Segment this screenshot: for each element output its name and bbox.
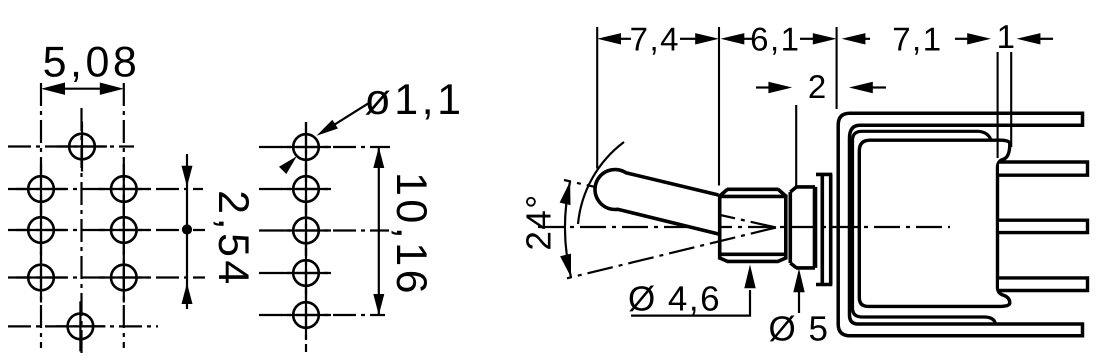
vertical centerline: [305, 122, 307, 352]
dimension 2,54: [182, 154, 258, 309]
angle arc 24deg: [560, 181, 571, 277]
row3 centerline: [259, 229, 389, 231]
row4 centerline: [8, 276, 205, 278]
row2 centerline: [259, 188, 332, 190]
dim 1: [997, 18, 1053, 55]
svg-text:10,16: 10,16: [387, 172, 435, 297]
lever swing arc: [578, 142, 624, 224]
hole top center: [57, 122, 107, 172]
svg-text:Ø 4,6: Ø 4,6: [628, 280, 721, 319]
hole row2 left: [16, 164, 66, 214]
toggle lever (bat): [595, 169, 719, 234]
column centerline right: [123, 83, 125, 348]
horizontal centerline: [538, 226, 950, 228]
svg-text:5,08: 5,08: [43, 39, 141, 87]
extension line 2 (thread start): [718, 27, 720, 186]
collar dia 5: [790, 187, 815, 268]
svg-text:6,1: 6,1: [750, 21, 800, 58]
label dia 4,6 with leader: [628, 265, 756, 319]
housing (plastic body): [859, 140, 1010, 306]
hole row2 right: [99, 164, 149, 214]
hole m3: [281, 206, 331, 256]
svg-text:24°: 24°: [520, 193, 559, 250]
center vertical centerline: [80, 108, 82, 355]
hole m1: [281, 122, 331, 172]
row1 centerline: [8, 145, 134, 147]
svg-text:1: 1: [997, 18, 1017, 55]
lower angled centerline: [567, 228, 776, 279]
dim 2: [756, 68, 886, 186]
extension line 5: [1010, 52, 1012, 147]
svg-text:2,54: 2,54: [209, 190, 257, 288]
upper angled centerline (lever axis): [564, 180, 776, 228]
hole bottom center: [55, 301, 105, 351]
inner lip line: [853, 131, 986, 317]
hole m5: [281, 290, 331, 340]
hole row3 left: [16, 205, 66, 255]
hole row4 left: [16, 253, 66, 303]
svg-text:7,4: 7,4: [630, 21, 680, 58]
dimension 10,16: [373, 147, 435, 315]
svg-text:2: 2: [808, 68, 828, 105]
pin top: [999, 162, 1088, 175]
body bracket (outer metal frame with top/bottom bars): [838, 113, 1082, 335]
label ø1,1 with leader: [279, 76, 465, 174]
dimension 5,08: [41, 39, 140, 95]
svg-text:Ø 5: Ø 5: [769, 310, 830, 349]
row1 centerline: [259, 146, 390, 148]
hole m2: [281, 164, 331, 214]
label dia 5 with leader: [769, 269, 830, 349]
front flange: [816, 174, 832, 284]
extension line 4: [997, 52, 999, 158]
hole row3 right: [99, 205, 149, 255]
pin bottom: [999, 278, 1088, 291]
column centerline left: [40, 83, 42, 348]
row5 centerline: [8, 325, 158, 327]
svg-text:7,1: 7,1: [892, 21, 942, 58]
threaded bushing: [720, 189, 786, 261]
row5 centerline: [259, 314, 385, 316]
row4 centerline: [259, 272, 332, 274]
hole row4 right: [99, 253, 149, 303]
dim 7,1: [842, 21, 991, 58]
row3 centerline: [8, 229, 205, 231]
extension line 3 (body front): [836, 27, 838, 109]
pin middle: [999, 220, 1088, 232]
extension line 1 (lever tip): [596, 27, 598, 169]
dim 6,1: [721, 21, 837, 58]
svg-text:ø1,1: ø1,1: [364, 76, 464, 124]
dim 7,4: [597, 21, 719, 58]
hole m4: [281, 248, 331, 298]
row2 centerline: [8, 188, 203, 190]
